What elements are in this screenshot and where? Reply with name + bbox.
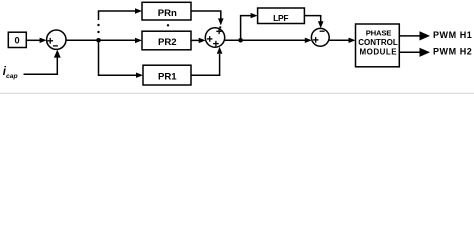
svg-text:MODULE: MODULE — [359, 48, 397, 57]
svg-text:0: 0 — [14, 36, 19, 46]
svg-text:PRn: PRn — [158, 8, 177, 19]
svg-text:PR2: PR2 — [158, 37, 177, 48]
svg-text:LPF: LPF — [273, 13, 288, 23]
svg-text:PWM H1: PWM H1 — [433, 30, 472, 40]
svg-text:CONTROL: CONTROL — [358, 38, 398, 47]
svg-text:PWM H2: PWM H2 — [433, 46, 472, 56]
svg-text:PR1: PR1 — [158, 71, 177, 82]
svg-text:PHASE: PHASE — [366, 28, 392, 37]
